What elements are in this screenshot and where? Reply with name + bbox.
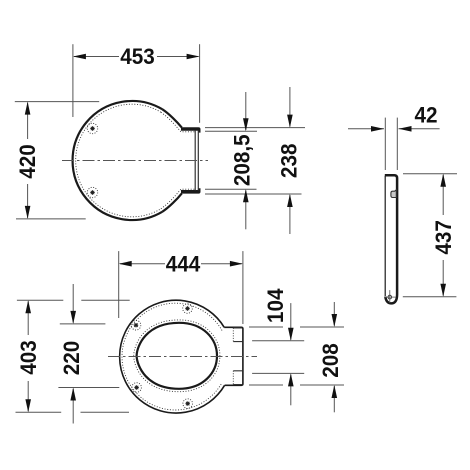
svg-text:420: 420	[14, 144, 40, 179]
extension lines for 104 and 208	[249, 327, 344, 385]
side profile outline	[385, 175, 397, 303]
lid inner dotted line (seat edge under lid)	[76, 104, 195, 217]
ring screw bottom	[183, 399, 193, 409]
dimension 104	[290, 303, 292, 405]
ring hinge notch bottom	[233, 371, 242, 385]
lid screw top-left	[87, 123, 97, 133]
lid screw bottom-left	[87, 187, 97, 197]
dimension 208	[333, 302, 335, 412]
dimension 42	[348, 118, 440, 170]
lid outline (top view, closed seat)	[73, 101, 182, 220]
hinge extension lines (lid right)	[205, 128, 305, 194]
ring hinge notch top	[233, 328, 242, 342]
svg-text:453: 453	[120, 43, 155, 69]
dimension 437	[403, 174, 457, 297]
ring dotted line outside inner oval	[134, 320, 220, 392]
side profile hinge pin	[385, 290, 396, 303]
svg-text:42: 42	[414, 102, 437, 128]
dimension 238	[289, 87, 291, 234]
dimension 444	[119, 251, 243, 324]
dimension 453	[73, 44, 200, 123]
lid hinge bar (right vertical double line)	[195, 131, 198, 191]
ring centerline	[108, 356, 257, 358]
svg-text:444: 444	[166, 251, 201, 277]
lid hinge top cap	[181, 127, 201, 132]
svg-text:238: 238	[276, 144, 302, 179]
svg-text:104: 104	[262, 288, 288, 323]
ring screw upper-left	[131, 320, 141, 330]
seat ring inner oval (egg shaped hole)	[137, 323, 217, 389]
dimension 220	[58, 284, 119, 424]
seat ring outline (bottom view)	[120, 300, 243, 413]
lid centerline	[62, 160, 208, 162]
svg-text:437: 437	[430, 220, 456, 255]
side profile bumper tab	[391, 190, 396, 198]
dimension 208,5	[245, 92, 247, 229]
ring dotted line inside outer circle	[122, 303, 222, 410]
dimension 420	[15, 102, 99, 219]
svg-text:220: 220	[58, 341, 84, 376]
svg-text:208,5: 208,5	[229, 134, 255, 186]
svg-text:403: 403	[15, 340, 41, 375]
ring screw lower-left	[132, 383, 142, 393]
lid hinge bottom cap	[181, 188, 201, 193]
dimension 403	[16, 300, 130, 412]
ring screw top	[183, 304, 193, 314]
svg-text:208: 208	[317, 343, 343, 378]
